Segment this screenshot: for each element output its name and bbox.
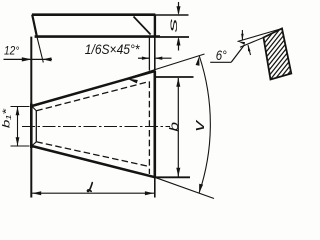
svg-text:v: v <box>191 119 208 132</box>
svg-text:s: s <box>166 18 180 32</box>
svg-text:6°: 6° <box>216 48 227 63</box>
svg-text:1/6S×45°*: 1/6S×45°* <box>85 41 141 57</box>
svg-text:b₁*: b₁* <box>0 108 12 128</box>
svg-text:12°: 12° <box>4 45 20 58</box>
svg-text:b: b <box>168 122 182 132</box>
